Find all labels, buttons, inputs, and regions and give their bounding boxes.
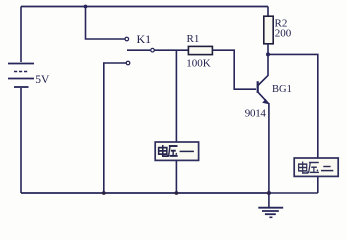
switch K1 blade (127, 49, 150, 51)
switch K1 bottom throw terminal (126, 61, 130, 65)
box voltmeter 2 (dian ya er) (294, 158, 338, 176)
wire R2 bottom (267, 44, 269, 55)
wire emitter (258, 92, 269, 193)
label R2 (275, 17, 288, 29)
resistor R1 (188, 46, 212, 54)
label dian (electric) char 1 of box2 (299, 161, 308, 173)
wire ground stem (268, 193, 270, 207)
label ya (pressure) char 2 of box2 (309, 162, 319, 172)
label 100K (186, 58, 211, 70)
resistor R2 (264, 16, 273, 44)
wire pole to R1 (155, 49, 189, 51)
wire collector (258, 54, 268, 85)
wire voltmeter 2 bottom (317, 176, 319, 193)
label yi (one) char 3 of box1 (180, 150, 194, 152)
label R1 (187, 33, 200, 45)
label 9014 (245, 108, 267, 120)
wire R1 to base corner (212, 50, 256, 89)
wire junction to right column (268, 54, 318, 158)
node bottom rail left (102, 191, 106, 195)
label er (two) char 3 of box2 (321, 167, 333, 171)
svg-text:5V: 5V (35, 74, 50, 86)
label 200 (275, 27, 292, 39)
svg-text:200: 200 (275, 27, 292, 39)
svg-text:100K: 100K (186, 58, 211, 70)
wire top rail (21, 6, 268, 8)
svg-text:BG1: BG1 (272, 84, 292, 95)
wire battery bottom (20, 88, 22, 193)
label K1 (137, 32, 152, 46)
label BG1 (272, 84, 292, 95)
label dian (electric) char 1 of box1 (159, 145, 168, 156)
node bottom rail middle (175, 191, 179, 195)
wire tap down to voltmeter 1 (175, 50, 177, 142)
node junction top rail (84, 5, 88, 9)
wire bottom throw to ground rail (104, 63, 126, 193)
svg-text:R1: R1 (187, 33, 200, 45)
svg-text:K1: K1 (137, 32, 152, 46)
wire bottom rail (21, 192, 271, 194)
wire R2 top (267, 7, 269, 17)
label ya (pressure) char 2 of box1 (169, 146, 178, 156)
transistor BG1 base bar (257, 81, 259, 93)
emitter arrowhead (262, 99, 269, 104)
wire voltmeter 2 feed (269, 192, 318, 194)
svg-text:9014: 9014 (245, 108, 267, 120)
wire voltmeter 1 to bottom rail (175, 160, 177, 193)
node collector junction (266, 52, 270, 56)
wire to switch top throw (86, 7, 125, 40)
wire battery top (20, 7, 22, 63)
switch K1 pole terminal (151, 48, 155, 52)
label 5V (35, 74, 50, 86)
battery 5V (8, 64, 34, 88)
node emitter to ground rail (267, 191, 271, 195)
ground (258, 208, 283, 218)
box voltmeter 1 (dian ya yi) (155, 142, 198, 160)
switch K1 top throw terminal (125, 37, 129, 41)
